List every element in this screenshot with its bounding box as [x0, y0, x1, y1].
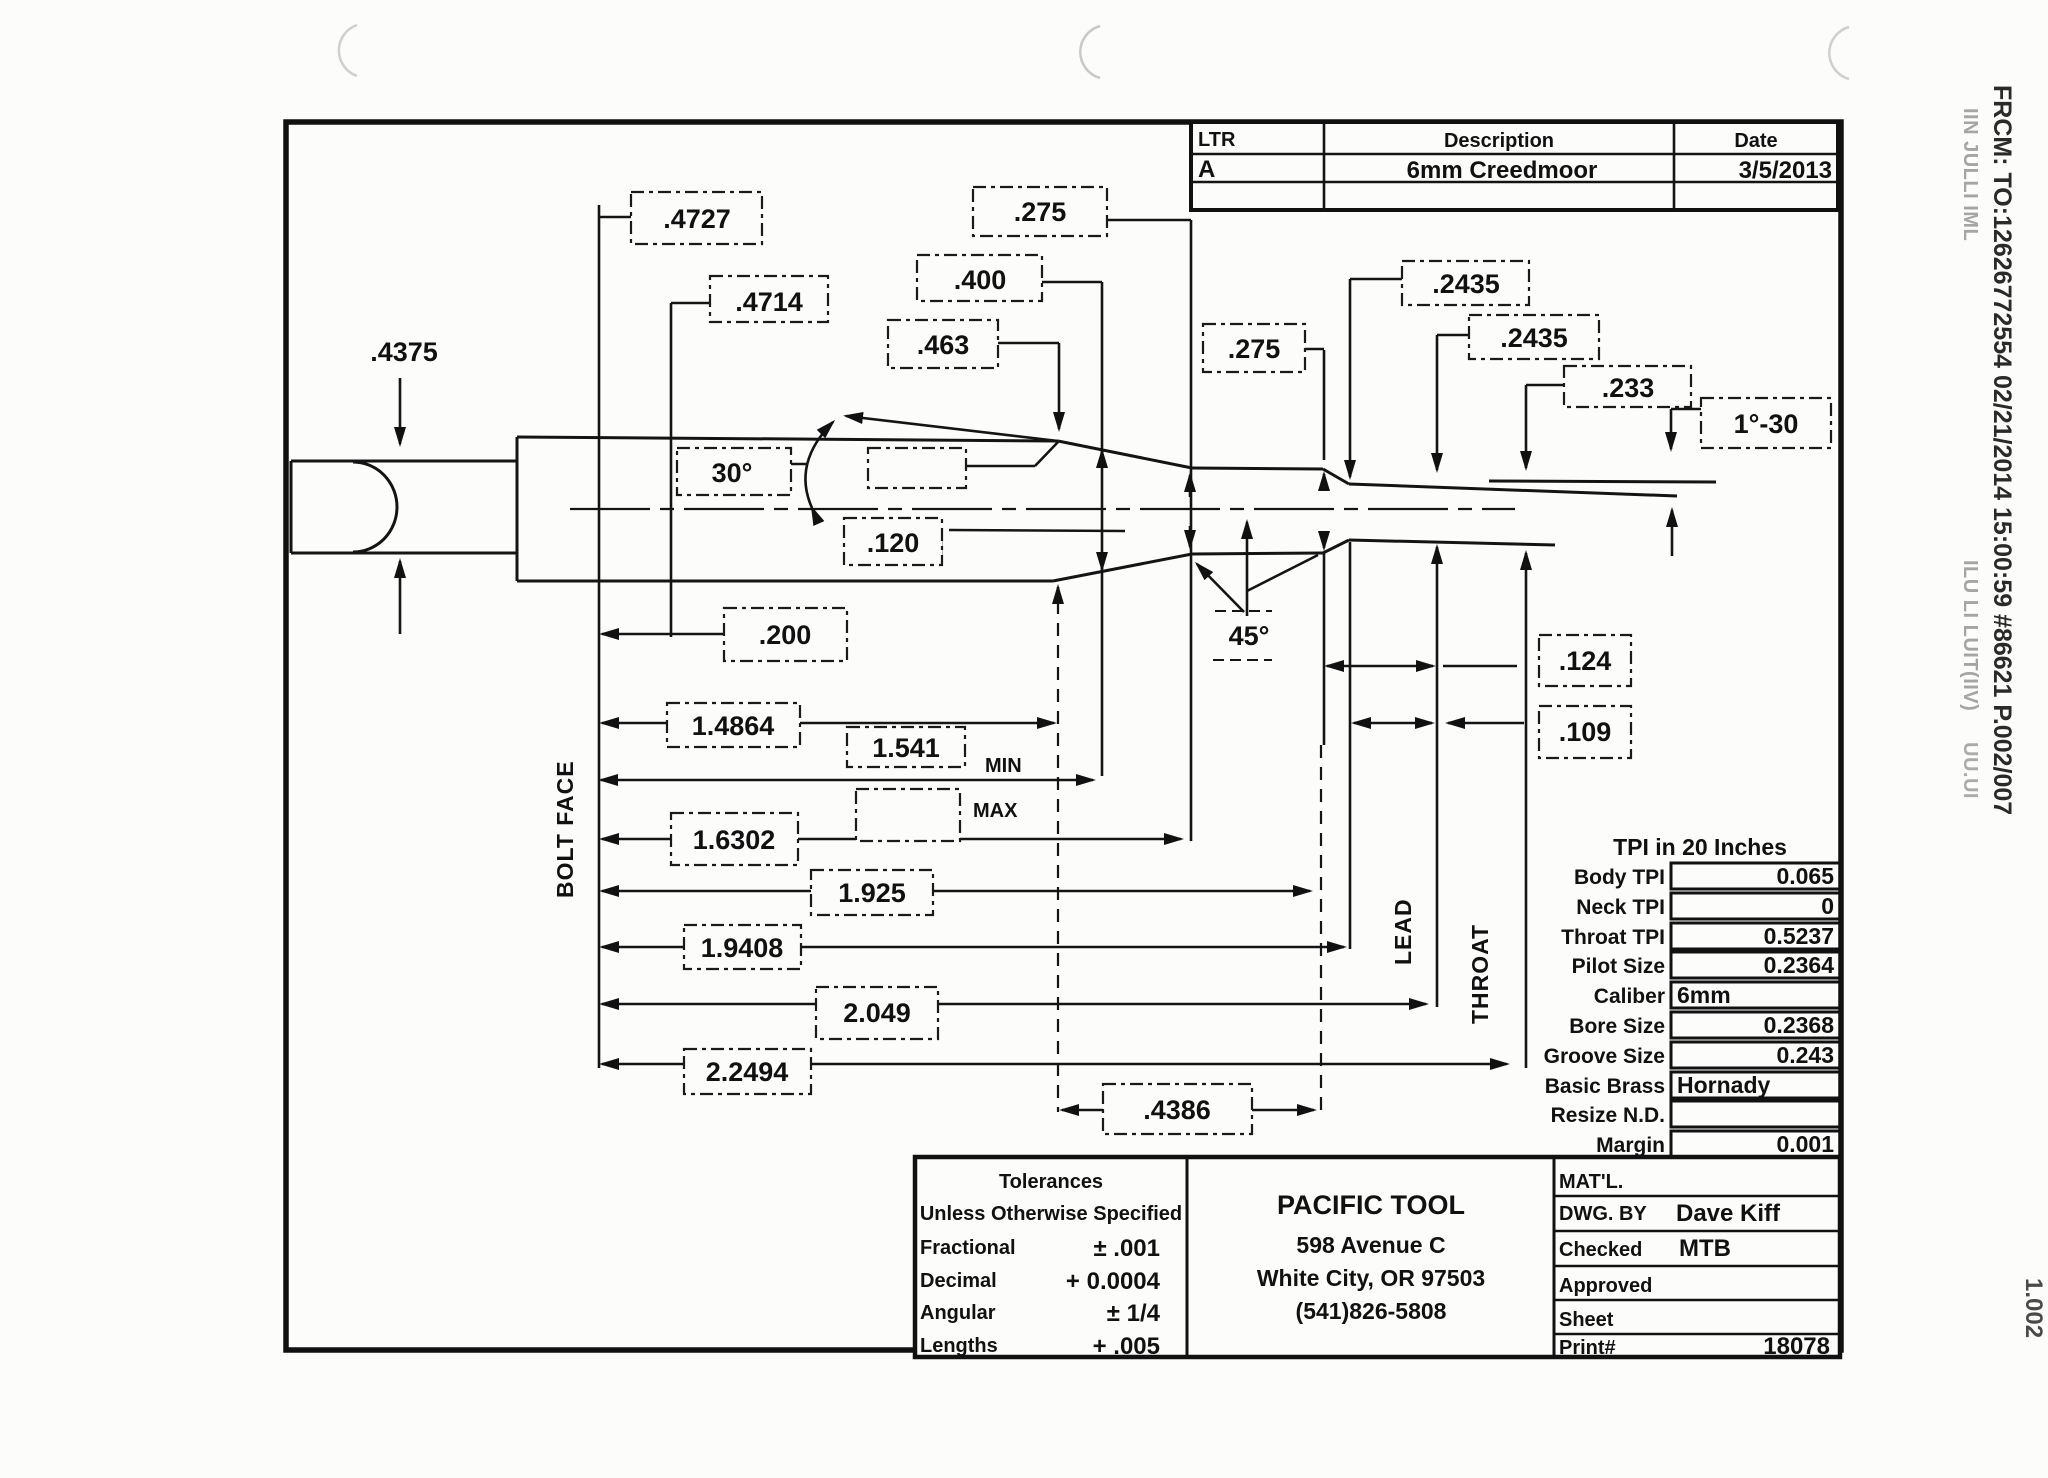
- dimension .4386: [1062, 1109, 1103, 1112]
- empty callout leader: [966, 465, 1035, 468]
- svg-text:1.541: 1.541: [872, 733, 940, 763]
- svg-text:Unless Otherwise Specified: Unless Otherwise Specified: [920, 1203, 1182, 1225]
- svg-text:6mm Creedmoor: 6mm Creedmoor: [1407, 157, 1598, 184]
- label box .200: [724, 608, 847, 661]
- svg-text:.233: .233: [1602, 373, 1655, 403]
- title block: [915, 1157, 1840, 1360]
- lead reference line: [1436, 335, 1439, 470]
- svg-text:± 1/4: ± 1/4: [1107, 1300, 1161, 1327]
- 30 deg extension line with arrowhead: [846, 416, 1058, 441]
- svg-text:.120: .120: [867, 528, 920, 558]
- TPI table: [1544, 834, 1841, 1157]
- label box .275 right: [1203, 324, 1305, 372]
- .4375 dimension arrows: [399, 378, 402, 444]
- svg-text:2.2494: 2.2494: [706, 1057, 789, 1087]
- svg-text:.109: .109: [1559, 717, 1612, 747]
- svg-text:0: 0: [1821, 893, 1834, 919]
- dimension 1.9408: [602, 946, 684, 949]
- label box 30 deg: [677, 448, 791, 495]
- punch hole left: [339, 25, 357, 76]
- svg-text:1.925: 1.925: [838, 878, 906, 908]
- svg-text:± .001: ± .001: [1093, 1235, 1160, 1262]
- svg-text:UU.UI: UU.UI: [1959, 742, 1981, 799]
- svg-text:18078: 18078: [1763, 1333, 1830, 1360]
- label box .275 top: [973, 187, 1107, 236]
- svg-text:LTR: LTR: [1198, 129, 1236, 151]
- label box 2.2494: [684, 1049, 811, 1094]
- svg-text:(541)826-5808: (541)826-5808: [1296, 1298, 1447, 1324]
- svg-text:MIN: MIN: [985, 755, 1022, 777]
- label box .4386: [1103, 1084, 1252, 1134]
- dimension .124: [1327, 665, 1433, 668]
- svg-text:Lengths: Lengths: [920, 1335, 998, 1357]
- svg-text:PACIFIC TOOL: PACIFIC TOOL: [1277, 1190, 1465, 1220]
- throat reference line: [1525, 385, 1528, 468]
- svg-text:.2435: .2435: [1432, 269, 1500, 299]
- dimension 1.6302: [602, 838, 671, 841]
- empty callout box: [868, 448, 966, 488]
- label box .463: [888, 320, 998, 368]
- svg-text:Approved: Approved: [1559, 1275, 1652, 1297]
- shoulder dashed extension line: [1057, 601, 1059, 1112]
- bolt face reference line: [598, 205, 601, 1068]
- svg-text:BOLT FACE: BOLT FACE: [552, 760, 578, 898]
- dimension 2.049: [602, 1003, 816, 1006]
- label box .109: [1539, 706, 1631, 758]
- svg-text:1.9408: 1.9408: [701, 933, 784, 963]
- label box 2.049: [816, 987, 938, 1039]
- .275 neck reference line: [1190, 220, 1193, 841]
- svg-text:Description: Description: [1444, 130, 1554, 152]
- svg-text:.275: .275: [1014, 197, 1067, 227]
- svg-text:ILU LI LUIT(IIV): ILU LI LUIT(IIV): [1959, 560, 1981, 711]
- svg-text:Pilot Size: Pilot Size: [1572, 955, 1665, 978]
- svg-text:Angular: Angular: [920, 1302, 996, 1324]
- svg-text:IIN JULLI IML: IIN JULLI IML: [1959, 108, 1981, 241]
- svg-text:Neck TPI: Neck TPI: [1576, 896, 1665, 919]
- svg-text:6mm: 6mm: [1677, 982, 1731, 1008]
- svg-text:.4375: .4375: [370, 337, 438, 367]
- neck end reference line: [1323, 350, 1326, 460]
- svg-text:White City, OR 97503: White City, OR 97503: [1257, 1265, 1485, 1291]
- svg-text:.4714: .4714: [735, 287, 803, 317]
- dimension .109: [1354, 722, 1432, 725]
- label box 1.541: [847, 727, 965, 767]
- svg-text:+ 0.0004: + 0.0004: [1066, 1268, 1161, 1295]
- svg-text:Dave Kiff: Dave Kiff: [1676, 1200, 1781, 1227]
- label leaders: [599, 216, 631, 219]
- svg-text:MAX: MAX: [973, 800, 1018, 822]
- 1-30 taper arrows: [1670, 409, 1673, 449]
- svg-text:1.6302: 1.6302: [693, 825, 776, 855]
- svg-text:Groove Size: Groove Size: [1544, 1045, 1665, 1068]
- svg-text:0.243: 0.243: [1776, 1042, 1834, 1068]
- .4714 reference line: [670, 303, 673, 637]
- svg-text:.4386: .4386: [1143, 1095, 1211, 1125]
- svg-text:.463: .463: [917, 330, 970, 360]
- svg-text:2.049: 2.049: [843, 998, 911, 1028]
- svg-text:0.2364: 0.2364: [1764, 952, 1835, 978]
- label box .2435 upper: [1402, 261, 1529, 305]
- .120 leader: [940, 529, 943, 564]
- svg-text:30°: 30°: [712, 458, 753, 488]
- svg-text:1.002: 1.002: [2020, 1278, 2047, 1338]
- reamer body outline: [517, 437, 1716, 581]
- punch hole middle: [1080, 26, 1100, 78]
- svg-text:A: A: [1198, 156, 1215, 183]
- svg-text:.124: .124: [1559, 646, 1612, 676]
- .463 lower arrow: [1057, 587, 1060, 597]
- dimension 2.2494: [602, 1063, 684, 1066]
- svg-text:THROAT: THROAT: [1467, 924, 1493, 1024]
- svg-text:Throat TPI: Throat TPI: [1561, 926, 1665, 949]
- dimension 1.4864: [602, 722, 667, 725]
- svg-text:Print#: Print#: [1559, 1337, 1616, 1359]
- label box 1.6302: [671, 813, 798, 865]
- punch hole right: [1829, 27, 1849, 79]
- svg-text:.275: .275: [1228, 334, 1281, 364]
- svg-text:Date: Date: [1734, 130, 1777, 152]
- svg-text:.4727: .4727: [663, 204, 731, 234]
- centerline: [570, 508, 1515, 510]
- revision table: [1191, 122, 1838, 210]
- svg-text:.200: .200: [759, 620, 812, 650]
- svg-text:Checked: Checked: [1559, 1239, 1642, 1261]
- label box 1.9408: [684, 925, 801, 969]
- svg-text:1.4864: 1.4864: [692, 711, 775, 741]
- svg-text:.400: .400: [954, 265, 1007, 295]
- svg-text:45°: 45°: [1229, 621, 1270, 651]
- svg-text:Hornady: Hornady: [1677, 1072, 1771, 1098]
- label box .4727: [631, 192, 762, 244]
- svg-text:Decimal: Decimal: [920, 1270, 997, 1292]
- svg-text:LEAD: LEAD: [1390, 898, 1416, 965]
- label box 1.4864: [667, 703, 800, 747]
- label box .400: [917, 255, 1042, 301]
- svg-text:Resize N.D.: Resize N.D.: [1551, 1104, 1665, 1127]
- svg-text:0.2368: 0.2368: [1764, 1012, 1835, 1038]
- dimension 1.925: [602, 890, 811, 893]
- svg-text:Tolerances: Tolerances: [999, 1171, 1103, 1193]
- svg-text:TPI in 20 Inches: TPI in 20 Inches: [1613, 834, 1787, 860]
- label box .120: [844, 518, 942, 565]
- neck diameter arrows at shoulder: [1189, 475, 1192, 497]
- svg-text:MTB: MTB: [1679, 1235, 1731, 1262]
- svg-text:Fractional: Fractional: [920, 1237, 1016, 1259]
- dimension 1.541: [601, 779, 1093, 782]
- .400 diameter arrows: [1101, 451, 1104, 464]
- empty max box: [856, 789, 960, 841]
- label box .4714: [710, 276, 828, 322]
- label box .124: [1539, 635, 1631, 686]
- 30 deg angle arc: [805, 422, 833, 508]
- svg-text:Sheet: Sheet: [1559, 1309, 1614, 1331]
- svg-text:MAT'L.: MAT'L.: [1559, 1171, 1623, 1193]
- svg-text:DWG. BY: DWG. BY: [1559, 1203, 1647, 1225]
- svg-text:3/5/2013: 3/5/2013: [1739, 157, 1832, 184]
- svg-text:1°-30: 1°-30: [1734, 409, 1799, 439]
- svg-text:0.5237: 0.5237: [1764, 923, 1834, 949]
- reamer shank outline: [291, 461, 517, 553]
- svg-text:598 Avenue C: 598 Avenue C: [1296, 1232, 1445, 1258]
- svg-text:Margin: Margin: [1596, 1134, 1665, 1157]
- 45 deg leaders: [1246, 522, 1249, 616]
- drawing frame: [286, 122, 1841, 1350]
- svg-text:0.001: 0.001: [1776, 1131, 1834, 1157]
- .400 reference line: [1101, 282, 1104, 776]
- svg-text:+ .005: + .005: [1093, 1333, 1160, 1360]
- svg-text:FRCM: TO:12626772554 02/21/201: FRCM: TO:12626772554 02/21/2014 15:00:59…: [1988, 85, 2016, 815]
- label box .233: [1564, 366, 1691, 407]
- svg-text:Bore Size: Bore Size: [1569, 1015, 1665, 1038]
- svg-text:0.065: 0.065: [1776, 863, 1834, 889]
- svg-text:.2435: .2435: [1500, 323, 1568, 353]
- label box 1.925: [811, 870, 933, 915]
- svg-text:Body TPI: Body TPI: [1574, 866, 1665, 889]
- .463 leader arrow: [1058, 343, 1061, 429]
- svg-text:Caliber: Caliber: [1594, 985, 1665, 1008]
- label box 1-30: [1701, 398, 1831, 448]
- dimension .200: [602, 633, 724, 636]
- svg-text:Basic Brass: Basic Brass: [1545, 1075, 1665, 1098]
- pilot start reference line: [1349, 279, 1352, 477]
- label box .2435 lower: [1469, 315, 1599, 359]
